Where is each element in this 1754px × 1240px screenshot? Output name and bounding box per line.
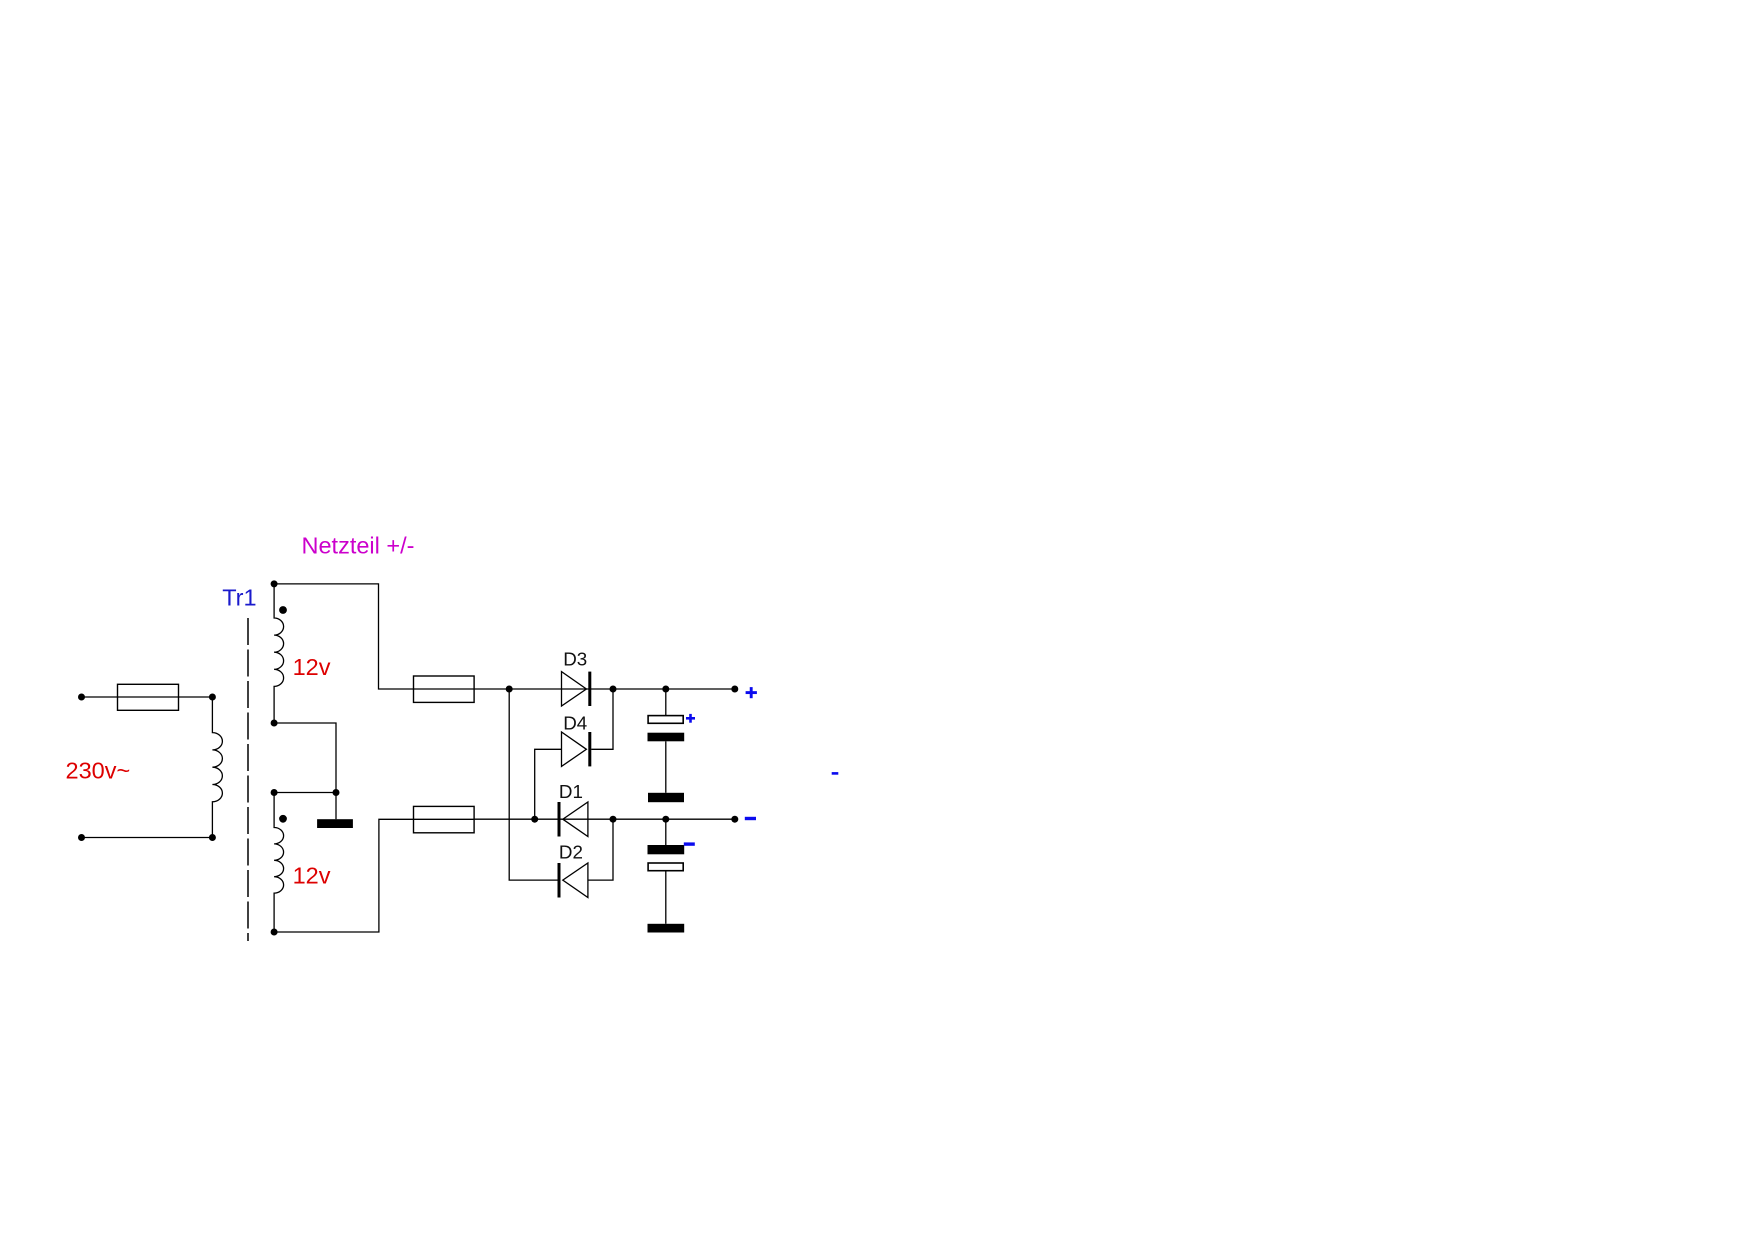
wire secondary2 bottom to fuse F3 [274,819,413,932]
minus mark at negative output [745,817,756,820]
fuse F1 primary [118,684,179,710]
node C1 top junction [662,686,669,693]
node fuse F1 output [209,694,216,701]
node center tap junction [333,789,340,796]
diode D1 [558,802,588,837]
plus mark at positive output [746,687,757,698]
capacitor C1 negative plate [648,733,685,742]
wire positive rail [474,688,735,690]
wire capacitor C1 to positive rail [665,689,667,716]
node positive output terminal [731,686,738,693]
ground center tap [317,819,353,828]
svg-text:D1: D1 [559,781,583,802]
capacitor C2 negative plate [648,845,685,854]
wire diode D2 anode to negative rail node [588,819,613,880]
node secondary2 top [271,789,278,796]
plus mark at C1 [686,714,695,723]
svg-text:Netzteil +/-: Netzteil +/- [302,532,415,558]
wire negative rail [474,818,735,820]
wire node fuse F2 output to diode D2 cathode [509,689,557,880]
fuse F2 secondary top [414,676,475,702]
wire secondary1 top to fuse F2 [274,584,413,689]
transformer Tr1 primary winding [212,697,222,838]
node negative output terminal [731,816,738,823]
svg-text:Tr1: Tr1 [222,584,256,610]
floating minus mark [832,772,839,775]
winding polarity dot secondary 1 [279,606,287,614]
svg-text:D3: D3 [563,649,587,670]
diode D2 [558,863,588,898]
wire diode D4 anode to negative rail node [535,749,562,819]
transformer Tr1 secondary winding 2 [274,793,284,933]
wire diode D4 cathode to positive rail node [591,689,613,749]
svg-text:D4: D4 [563,712,587,733]
capacitor C1 positive plate [648,716,683,724]
wire primary bottom [82,837,213,839]
diode D3 [562,672,592,706]
node secondary2 bottom [271,929,278,936]
node C2 top junction [662,816,669,823]
capacitor C2 positive plate [648,863,683,871]
node secondary1 top [271,580,278,587]
wire secondary1 bottom to center tap [274,723,336,793]
node primary input top [78,694,85,701]
fuse F3 secondary bottom [414,806,475,832]
wire fuse F1 to primary winding [179,696,213,698]
svg-text:230v~: 230v~ [66,757,131,783]
node primary input bottom [78,834,85,841]
svg-text:D2: D2 [559,842,583,863]
node primary winding bottom [209,834,216,841]
svg-text:12v: 12v [293,863,331,889]
node D1 cathode junction [531,816,538,823]
svg-text:12v: 12v [293,654,331,680]
winding polarity dot secondary 2 [279,815,287,823]
wire capacitor C2 to ground [665,871,667,924]
node D1 anode junction [610,816,617,823]
node secondary1 bottom [271,720,278,727]
diode D4 [562,732,592,766]
wire primary left top [82,696,118,698]
ground below C1 [648,793,684,802]
wire capacitor C2 to negative rail [665,819,667,845]
transformer Tr1 secondary winding 1 [274,584,284,723]
transformer core dashed line [247,618,249,941]
wire center tap to ground [335,793,337,820]
ground below C2 [648,924,685,933]
node D3 cathode junction [610,686,617,693]
wire capacitor C1 to ground [665,741,667,793]
node fuse F2 output junction [506,686,513,693]
minus mark at C2 [684,842,695,845]
